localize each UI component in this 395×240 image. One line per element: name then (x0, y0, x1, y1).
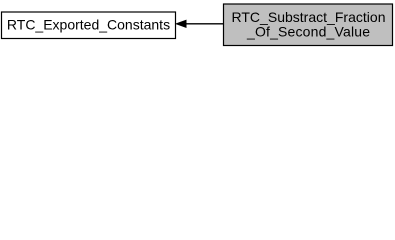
edge arrowhead (176, 20, 186, 27)
node RTC_Substract_Fraction_Of_Second_Value (box, current, gray fill) (224, 4, 393, 46)
svg-text:_Of_Second_Value: _Of_Second_Value (246, 24, 370, 40)
background (0, 0, 395, 52)
svg-text:RTC_Substract_Fraction: RTC_Substract_Fraction (232, 9, 386, 25)
node RTC_Exported_Constants (box) (2, 12, 176, 39)
svg-text:RTC_Exported_Constants: RTC_Exported_Constants (7, 17, 170, 33)
edge wire: from current node to RTC_Exported_Constants (186, 23, 224, 25)
